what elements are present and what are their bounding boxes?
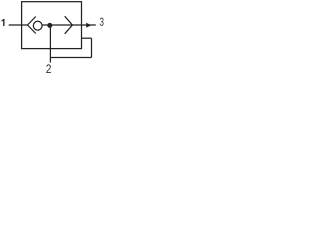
wire: ball to port 3 [42,24,96,26]
valve body envelope [22,2,82,49]
arrowhead to port 3 [86,23,91,28]
wire: loop bottom to port 2 [50,57,91,59]
wire: port 2 drop [49,25,51,62]
wire: loop down [91,38,93,57]
label port 2 [46,64,51,73]
wire: side port from right edge [82,37,92,39]
flow chevron [65,16,73,34]
check valve ball [33,21,42,30]
junction node [47,23,52,28]
port 1 lead line [9,24,28,26]
label port 3 [100,18,104,26]
label port 1 [2,19,5,26]
check valve seat [28,17,36,34]
